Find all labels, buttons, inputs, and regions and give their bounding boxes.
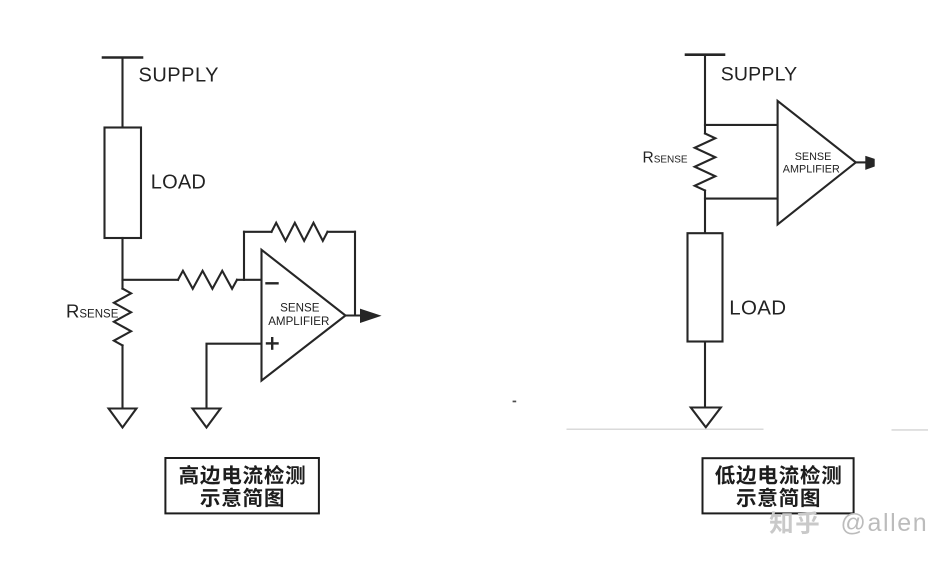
amplifier U2 SENSE AMPLIFIER (right) — [778, 101, 856, 224]
caption box (left): 高边电流检测 示意简图 — [165, 458, 319, 513]
wire op-amp plus input — [207, 344, 262, 408]
wire supply to load — [121, 58, 123, 128]
svg-text:AMPLIFIER: AMPLIFIER — [268, 315, 329, 328]
svg-text:LOAD: LOAD — [151, 171, 206, 193]
svg-text:RSENSE: RSENSE — [643, 149, 688, 166]
svg-text:SUPPLY: SUPPLY — [139, 65, 219, 87]
output arrow (right, filled) — [866, 157, 874, 170]
output arrow (left, filled) — [361, 309, 381, 322]
wire feedback left vertical — [243, 232, 245, 280]
wire amplifier output — [856, 161, 867, 163]
resistor Rf (feedback, horizontal zigzag) — [272, 223, 328, 241]
svg-text:SENSE: SENSE — [280, 301, 320, 314]
ground (left, under plus input) — [193, 409, 221, 428]
svg-text:LOAD: LOAD — [729, 297, 786, 320]
wire sense node to input resistor — [123, 279, 179, 281]
stray dark dash artifact — [513, 401, 517, 403]
wire feedback right vertical to output — [354, 232, 356, 316]
wire op-amp output — [346, 314, 362, 316]
wire load to ground — [704, 342, 706, 408]
caption box (right): 低边电流检测 示意简图 — [703, 458, 854, 513]
svg-text:SENSE: SENSE — [795, 151, 832, 163]
wire bottom sense node — [704, 191, 706, 234]
watermark 知乎 @allen — [770, 511, 792, 534]
supply rail bar (left SUPPLY) — [103, 56, 142, 59]
ground (right) — [691, 408, 721, 428]
svg-text:RSENSE: RSENSE — [66, 301, 119, 322]
svg-text:@allen: @allen — [841, 509, 929, 537]
op-amp U1 SENSE AMPLIFIER (left) — [262, 250, 346, 381]
wire supply to top sense node — [704, 55, 706, 134]
wire bottom sense node to amplifier — [705, 198, 778, 200]
svg-text:SUPPLY: SUPPLY — [721, 63, 798, 85]
wire feedback top right — [328, 231, 356, 233]
resistor Rin (series input, horizontal zigzag) — [178, 271, 237, 289]
wire input resistor to op-amp inverting input — [237, 279, 262, 281]
load resistor LOAD (left) — [105, 128, 142, 239]
supply rail bar (right SUPPLY) — [686, 53, 724, 56]
resistor RSENSE (right, vertical zigzag) — [695, 134, 716, 191]
wire rsense to ground — [121, 345, 123, 408]
op-amp U1 plus input symbol — [267, 342, 278, 344]
load resistor LOAD (right) — [688, 233, 723, 341]
faint gray rule segment (far right) — [892, 429, 929, 431]
svg-text:AMPLIFIER: AMPLIFIER — [783, 163, 840, 175]
op-amp U1 minus input symbol — [267, 282, 278, 284]
wire load to sense node — [121, 238, 123, 289]
faint gray rule segment (left of right ground) — [567, 429, 764, 431]
wire feedback top left — [244, 231, 272, 233]
wire top sense node to amplifier — [705, 124, 778, 126]
resistor RSENSE (left, vertical zigzag) — [114, 289, 131, 346]
ground (left, under RSENSE) — [109, 409, 137, 428]
